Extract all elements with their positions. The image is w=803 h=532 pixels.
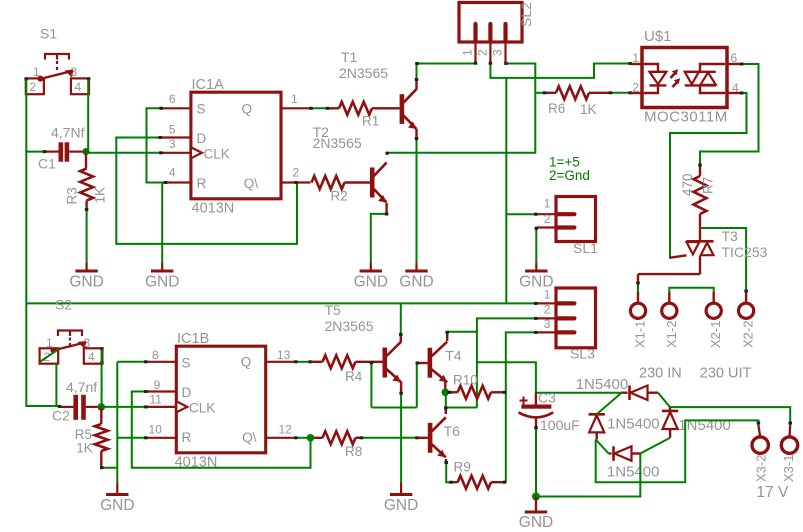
transistor T6 2N3565 xyxy=(428,417,460,457)
svg-text:GND: GND xyxy=(399,274,433,291)
svg-text:4: 4 xyxy=(732,81,739,95)
wire R8 to T6 base xyxy=(360,436,428,439)
svg-text:2: 2 xyxy=(544,303,551,317)
svg-text:D: D xyxy=(182,385,192,400)
svg-text:470: 470 xyxy=(680,173,695,196)
switch S1 xyxy=(24,26,90,95)
svg-text:2: 2 xyxy=(476,49,490,56)
svg-text:4,7Nf: 4,7Nf xyxy=(51,125,85,141)
svg-text:X2-1: X2-1 xyxy=(708,321,723,348)
svg-text:1: 1 xyxy=(291,92,298,106)
svg-text:S2: S2 xyxy=(55,297,72,313)
resistor R8 1K xyxy=(294,431,362,459)
node T4 emitter junction xyxy=(442,381,452,396)
svg-text:Q\: Q\ xyxy=(244,176,259,191)
svg-text:T4: T4 xyxy=(445,348,462,364)
wire C3 bottom to GND node xyxy=(534,426,538,495)
wire S2 pin2 diagonal xyxy=(40,349,58,407)
wire T3 MT1 to X1-1 xyxy=(636,274,700,293)
IC 4013 flip-flop IC1A xyxy=(161,77,311,217)
svg-text:2N3565: 2N3565 xyxy=(325,318,374,334)
wire R3 to GND xyxy=(85,208,89,262)
transistor T1 2N3565 xyxy=(339,49,417,129)
svg-text:1N5400: 1N5400 xyxy=(607,464,660,481)
resistor R1 1K xyxy=(309,102,399,129)
resistor R10 xyxy=(451,372,506,399)
wire U$1 pin4 to T3 gate xyxy=(670,92,747,258)
wire T5 collector to S2 net xyxy=(399,303,403,342)
wire S1 pin4 down to C1 junction xyxy=(87,80,89,152)
wire T6 collector to riser xyxy=(444,407,477,415)
ground GND (T2) xyxy=(354,262,388,290)
svg-text:R9: R9 xyxy=(454,460,471,475)
svg-text:2N3565: 2N3565 xyxy=(313,135,362,151)
wire bridge AC2 to X3-2 xyxy=(596,420,761,482)
svg-text:R6: R6 xyxy=(548,101,565,116)
svg-text:T1: T1 xyxy=(341,49,358,65)
node Qbar-R2 junction xyxy=(294,181,298,184)
node C3-GND junction xyxy=(532,493,540,501)
switch S2 xyxy=(40,331,104,365)
wire IC1B D to Qbar feedback xyxy=(132,390,311,468)
ground GND (IC1B) xyxy=(100,483,134,514)
ground GND (SL1) xyxy=(519,262,553,290)
svg-text:S: S xyxy=(182,356,191,371)
wire T6 emitter to R9 xyxy=(444,459,450,482)
resistor R6 1K xyxy=(535,86,632,117)
svg-text:S: S xyxy=(197,102,206,117)
svg-text:4,7nf: 4,7nf xyxy=(66,379,97,395)
wire bridge AC1 to X3-1 xyxy=(670,407,792,437)
optocoupler U$1 MOC3011M xyxy=(631,28,741,126)
svg-text:2: 2 xyxy=(293,166,300,180)
svg-text:MOC3011M: MOC3011M xyxy=(644,109,728,126)
wire IC1B CLK to C2 junction xyxy=(101,405,147,408)
terminal X3-1 xyxy=(781,437,798,482)
svg-text:230 IN: 230 IN xyxy=(639,366,682,382)
ground GND (IC1A S-R) xyxy=(145,262,179,290)
transistor T2 2N3565 xyxy=(313,124,387,203)
svg-text:X3-1: X3-1 xyxy=(781,455,796,482)
svg-text:6: 6 xyxy=(731,51,738,65)
wire bridge NW diagonal xyxy=(597,393,622,414)
wire C2 left to rail xyxy=(26,405,61,408)
label net names 1=+5 2=Gnd xyxy=(549,155,590,184)
svg-text:1: 1 xyxy=(544,287,551,301)
svg-text:3: 3 xyxy=(491,49,505,56)
wire T4 collector riser to C3 node xyxy=(477,362,622,393)
svg-text:C1: C1 xyxy=(38,156,56,172)
wire S2 net to SL3 pin1 xyxy=(26,302,537,305)
svg-text:GND: GND xyxy=(354,274,388,291)
svg-text:13: 13 xyxy=(277,348,291,362)
wire R7/T3-MT2 to X2-2 xyxy=(700,228,748,293)
resistor R2 1K xyxy=(312,176,370,204)
svg-text:GND: GND xyxy=(384,497,418,514)
svg-text:1K: 1K xyxy=(93,187,108,204)
label S2 net xyxy=(55,297,72,313)
diode bridge bottom 1N5400 xyxy=(607,446,660,480)
ground GND (C3) xyxy=(519,497,553,532)
triac T3 TIC253 xyxy=(669,228,767,274)
svg-text:Q\: Q\ xyxy=(242,430,257,445)
svg-text:230 UIT: 230 UIT xyxy=(700,366,752,382)
svg-text:T6: T6 xyxy=(444,423,461,439)
svg-text:1: 1 xyxy=(33,65,40,79)
wire SL3 pin3 to R10/R9 node xyxy=(506,331,538,482)
diode bridge top 1N5400 xyxy=(576,376,658,400)
wire T2 collector to SL2 pin3 net xyxy=(385,62,535,155)
resistor R9 xyxy=(449,460,506,489)
svg-text:1N5400: 1N5400 xyxy=(576,376,629,393)
svg-text:3: 3 xyxy=(544,317,551,331)
wire T1 collector to SL2 pin1 xyxy=(415,64,476,90)
svg-text:R: R xyxy=(182,430,192,445)
svg-text:X3-2: X3-2 xyxy=(754,455,769,482)
label 230 UIT xyxy=(700,366,752,382)
svg-text:T3: T3 xyxy=(722,228,739,244)
ground GND (T5) xyxy=(384,482,418,514)
svg-text:6: 6 xyxy=(169,92,176,106)
wire SL1 pin1 to gnd vertical xyxy=(506,213,537,216)
svg-text:1K: 1K xyxy=(76,441,93,456)
wire S1 pin2 to common left rail xyxy=(25,80,27,152)
svg-text:X1-1: X1-1 xyxy=(633,321,648,348)
svg-text:GND: GND xyxy=(519,514,553,531)
capacitor C2 xyxy=(52,379,98,424)
label 17 V xyxy=(756,484,789,501)
svg-text:17 V: 17 V xyxy=(756,484,789,501)
svg-text:4013N: 4013N xyxy=(192,201,235,217)
capacitor C1 xyxy=(38,125,85,172)
wire SL2-gnd vertical to SL1/SL3 xyxy=(505,78,507,304)
wire SL1 pin2 to GND xyxy=(535,227,539,263)
svg-text:GND: GND xyxy=(100,497,134,514)
resistor R7 470 xyxy=(680,164,716,229)
svg-text:R7: R7 xyxy=(701,177,716,194)
svg-text:2: 2 xyxy=(544,212,551,226)
wire SL3 pin2 from T4 collector xyxy=(477,317,538,408)
svg-text:11: 11 xyxy=(149,393,162,407)
svg-text:CLK: CLK xyxy=(189,401,215,416)
svg-text:1N5400: 1N5400 xyxy=(607,416,660,433)
connector SL2 xyxy=(459,2,534,64)
transistor T5 2N3565 xyxy=(325,302,401,382)
svg-text:X2-2: X2-2 xyxy=(741,321,756,348)
wire T5 base to T4 base link xyxy=(370,361,417,407)
wire bridge SE diagonal xyxy=(640,438,670,454)
resistor R4 1K xyxy=(294,355,382,384)
svg-text:4: 4 xyxy=(88,350,95,364)
svg-text:IC1A: IC1A xyxy=(192,77,225,93)
wire IC1A D to Qbar feedback xyxy=(116,136,297,244)
svg-text:R8: R8 xyxy=(345,444,362,459)
svg-text:T5: T5 xyxy=(325,302,342,318)
svg-text:5: 5 xyxy=(169,123,176,137)
svg-text:R10: R10 xyxy=(453,372,478,387)
wire T4 emitter to T6 collector xyxy=(445,392,447,407)
svg-text:100uF: 100uF xyxy=(540,417,580,433)
label 230 IN xyxy=(639,366,682,382)
svg-text:R: R xyxy=(197,176,207,191)
ground GND (R3) xyxy=(69,262,103,290)
connector SL3 xyxy=(536,287,595,361)
svg-text:2N3565: 2N3565 xyxy=(339,65,388,81)
svg-text:Q: Q xyxy=(241,102,252,117)
wire T1 emitter to GND xyxy=(415,129,419,262)
wire IC1A S-R tie to GND xyxy=(147,107,168,263)
svg-text:1: 1 xyxy=(632,51,639,65)
svg-text:SL3: SL3 xyxy=(570,346,595,362)
wire T5 emitter to GND xyxy=(399,382,403,483)
svg-text:SL1: SL1 xyxy=(573,240,598,256)
diode bridge left 1N5400 xyxy=(589,414,660,439)
node Qbar-R8 junction xyxy=(307,434,315,442)
capacitor C3 100uF electrolytic xyxy=(519,390,580,434)
svg-text:2: 2 xyxy=(632,81,639,95)
svg-text:C3: C3 xyxy=(538,390,556,406)
svg-text:IC1B: IC1B xyxy=(177,331,209,347)
svg-text:1K: 1K xyxy=(580,102,597,117)
terminal X2-1 xyxy=(706,292,723,348)
wire bridge DC minus to GND node xyxy=(536,454,640,497)
svg-text:2=Gnd: 2=Gnd xyxy=(549,168,590,183)
svg-text:4: 4 xyxy=(169,166,176,180)
svg-text:1: 1 xyxy=(461,49,475,56)
svg-text:CLK: CLK xyxy=(204,147,230,162)
node C2-R5-CLK junction xyxy=(98,403,106,411)
wire IC1B S-R tie to GND xyxy=(117,360,147,482)
svg-text:TIC253: TIC253 xyxy=(722,244,768,260)
svg-text:R1: R1 xyxy=(362,114,379,129)
svg-text:10: 10 xyxy=(149,422,163,436)
transistor T4 2N3565 xyxy=(416,342,462,383)
terminal X2-2 xyxy=(739,292,756,348)
wire left rail vertical xyxy=(25,151,27,407)
svg-text:S1: S1 xyxy=(40,26,57,42)
svg-text:Q: Q xyxy=(241,355,252,370)
svg-text:R2: R2 xyxy=(331,189,348,204)
svg-text:GND: GND xyxy=(69,274,103,291)
svg-text:8: 8 xyxy=(152,348,159,362)
svg-text:2: 2 xyxy=(30,80,37,94)
wire R5 bottom to GND vertical xyxy=(100,466,117,469)
wire U$1 pin6 to R7 xyxy=(700,63,759,165)
diode bridge right 1N5400 xyxy=(662,407,731,438)
wire S2 pin4 down to C2 junction xyxy=(101,349,103,407)
svg-text:D: D xyxy=(197,131,207,146)
svg-text:C2: C2 xyxy=(52,408,70,424)
svg-text:SL2: SL2 xyxy=(518,2,534,27)
connector SL1 xyxy=(536,197,598,257)
svg-text:GND: GND xyxy=(145,274,179,291)
svg-text:3: 3 xyxy=(71,65,78,79)
terminal X1-1 xyxy=(630,292,647,348)
wire bridge SW diagonal xyxy=(596,439,609,453)
svg-text:U$1: U$1 xyxy=(644,28,672,45)
svg-text:R4: R4 xyxy=(345,369,363,384)
wire IC1A CLK to C1 junction xyxy=(86,151,163,154)
wire SL2 pin1 net xyxy=(415,62,477,65)
svg-text:9: 9 xyxy=(154,378,161,392)
ground GND (T1) xyxy=(399,262,433,290)
wire T2 emitter to GND xyxy=(371,203,389,262)
wire T4 collector to riser xyxy=(445,331,476,341)
svg-text:4: 4 xyxy=(75,80,82,94)
resistor R3 1K xyxy=(65,152,108,209)
resistor R5 1K xyxy=(75,407,108,468)
wire C1 left to rail xyxy=(25,150,46,153)
wire bridge NE diagonal xyxy=(658,393,670,407)
svg-text:R3: R3 xyxy=(65,187,80,204)
wire X1-2 to X2-1 bridge xyxy=(669,288,713,292)
svg-text:12: 12 xyxy=(279,422,293,436)
svg-text:1: 1 xyxy=(544,197,551,211)
terminal X1-2 xyxy=(662,292,679,348)
wire SL2 pin2 +5 net to U$1 pin1 xyxy=(489,62,632,78)
node C1-R3-CLK junction xyxy=(82,148,89,155)
IC 4013 flip-flop IC1B xyxy=(146,331,295,471)
terminal X3-2 xyxy=(752,437,769,482)
svg-text:X1-2: X1-2 xyxy=(664,321,679,348)
svg-text:3: 3 xyxy=(169,137,176,151)
